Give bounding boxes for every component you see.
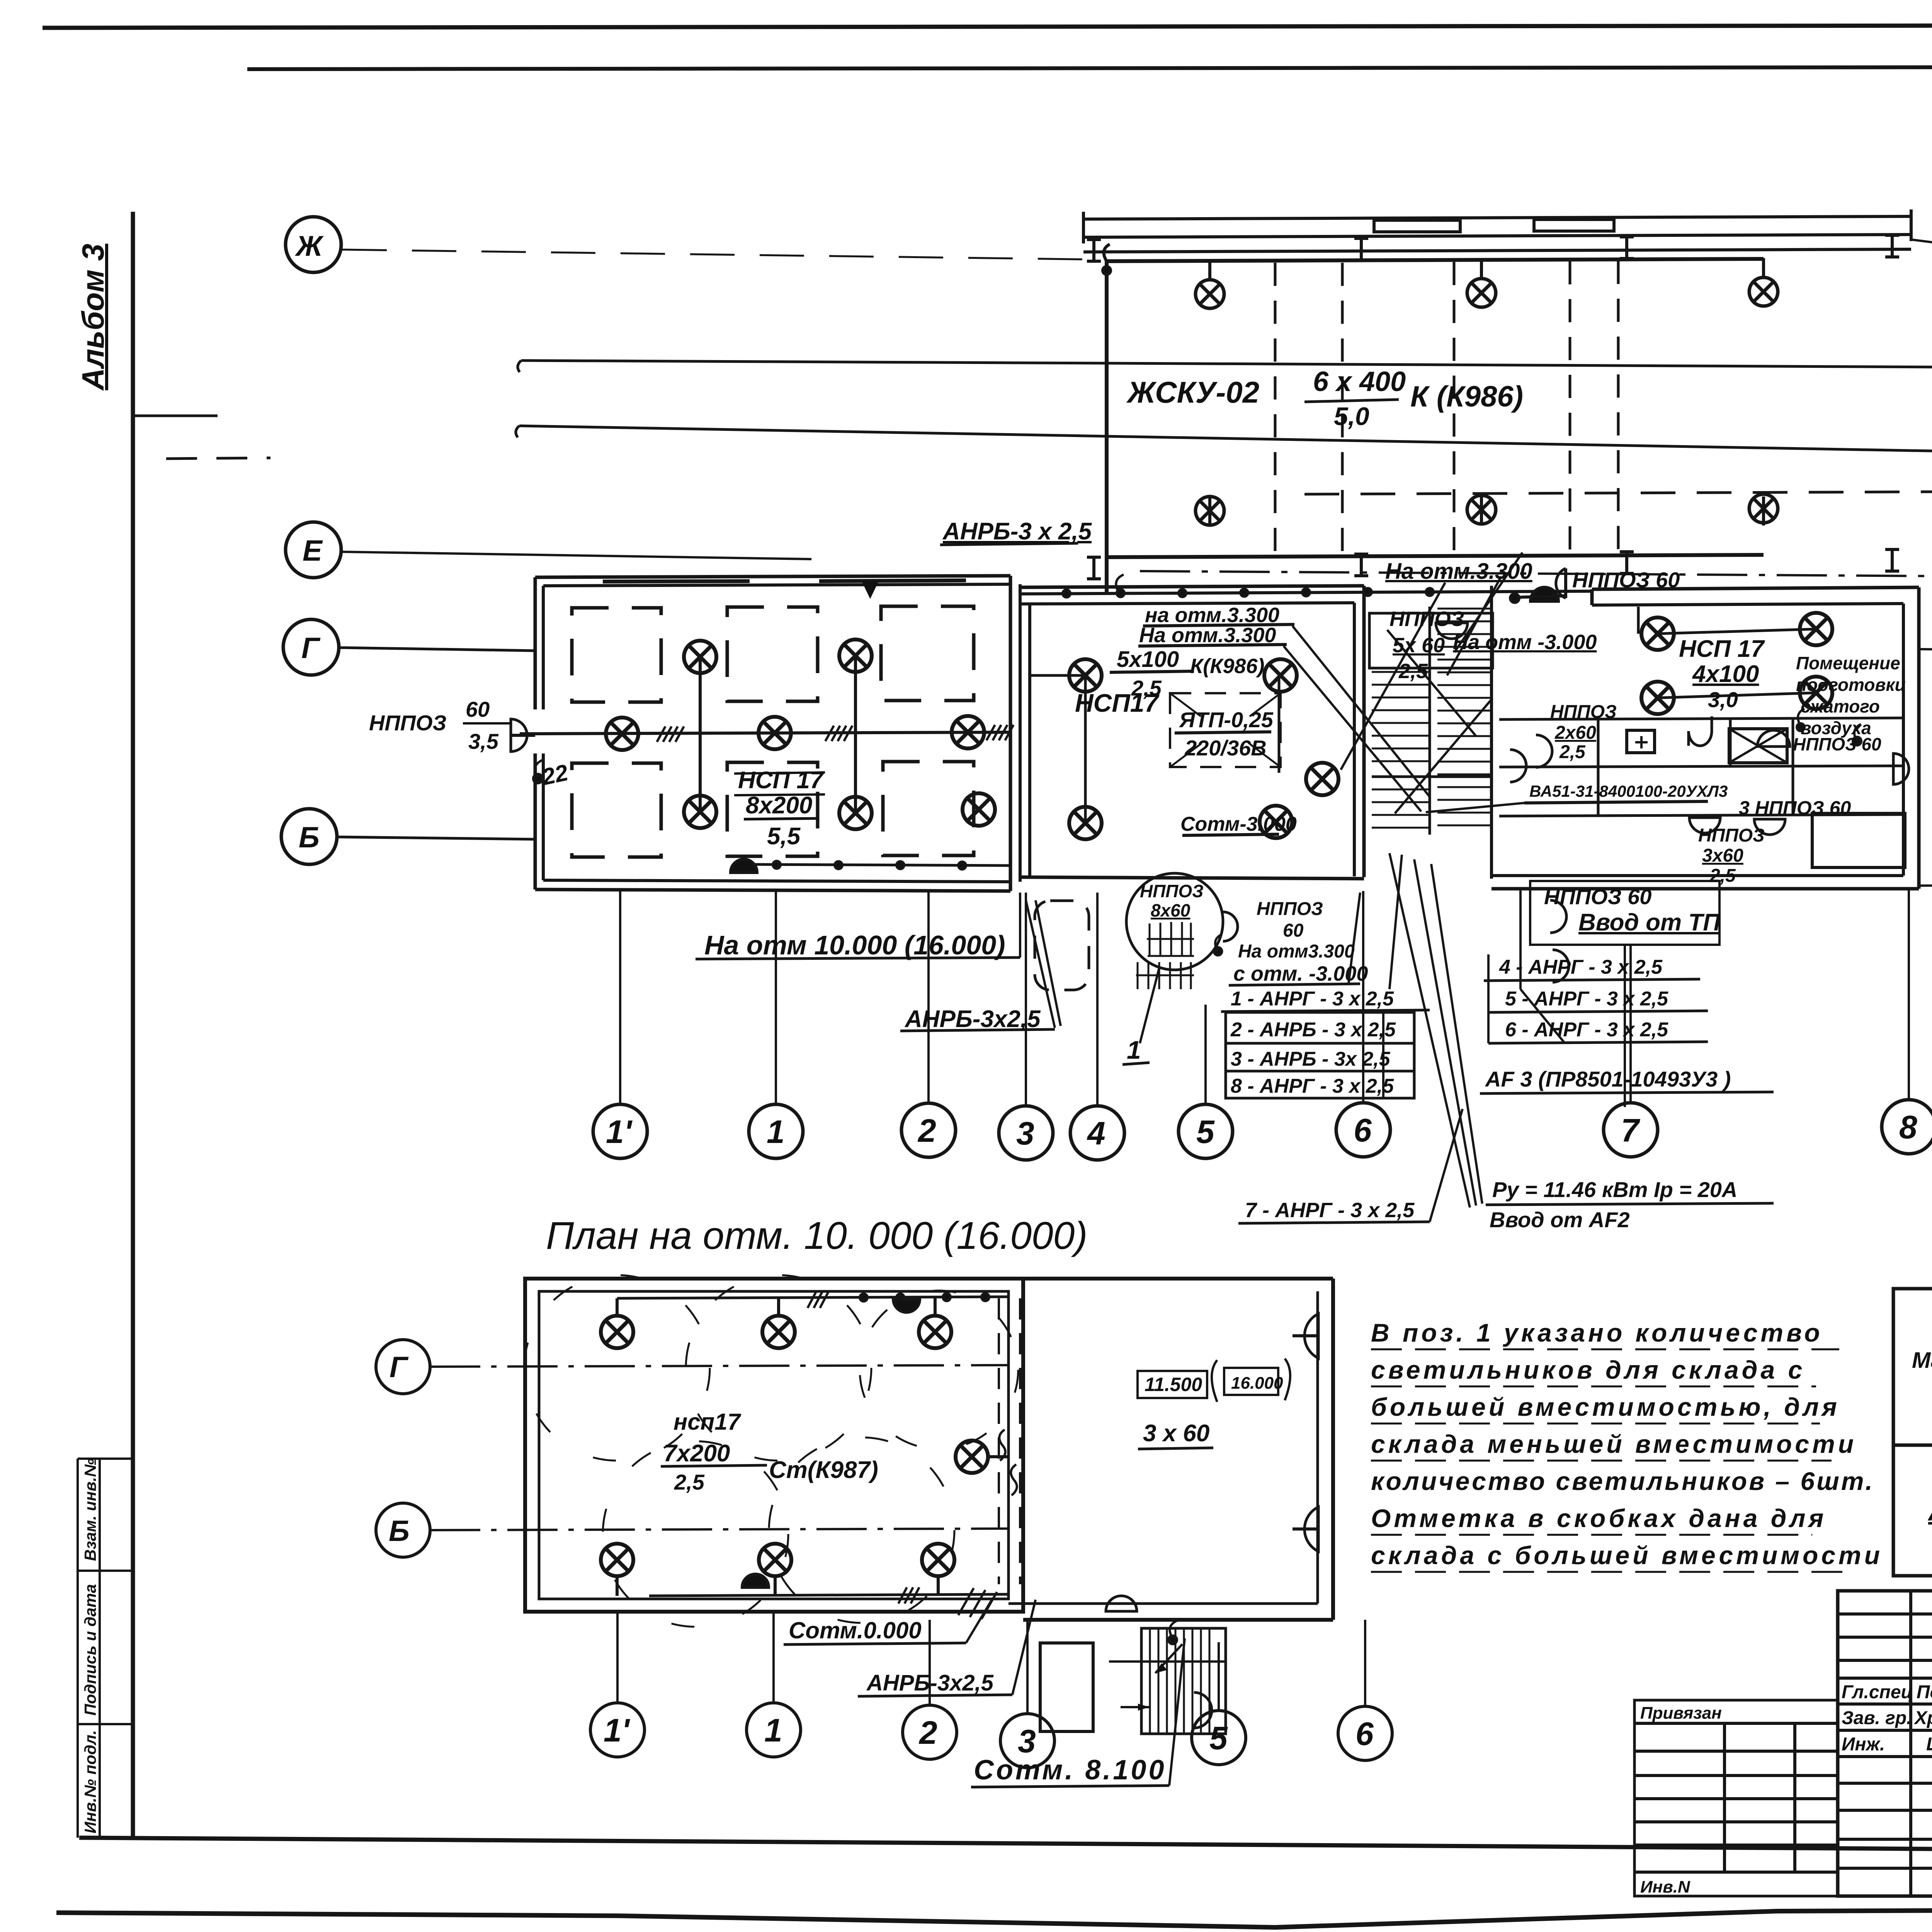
svg-text:1: 1 (764, 1712, 782, 1748)
svg-text:1: 1 (1127, 1036, 1141, 1064)
svg-text:НСП 17: НСП 17 (1679, 636, 1765, 662)
svg-text:Инж.: Инж. (1842, 1734, 1885, 1755)
svg-text:6: 6 (1355, 1716, 1374, 1752)
svg-text:4х100: 4х100 (1692, 661, 1759, 687)
svg-text:На отм3.300: На отм3.300 (1238, 941, 1355, 962)
svg-text:Сотм. 8.100: Сотм. 8.100 (974, 1755, 1167, 1786)
svg-text:НППОЗ 60: НППОЗ 60 (1793, 734, 1881, 754)
svg-text:60: 60 (1283, 920, 1304, 941)
svg-text:Хрипушкин: Хрипушкин (1913, 1708, 1932, 1728)
svg-text:большей вместимостью, для: большей вместимостью, для (1371, 1393, 1840, 1421)
svg-text:3,5: 3,5 (468, 729, 499, 753)
svg-text:Б: Б (299, 821, 320, 854)
svg-text:22: 22 (539, 759, 570, 790)
svg-text:4 - АНРГ - 3 х 2,5: 4 - АНРГ - 3 х 2,5 (1499, 956, 1663, 978)
svg-text:НППОЗ 60: НППОЗ 60 (1572, 568, 1680, 592)
svg-text:60: 60 (466, 697, 490, 721)
svg-text:Помещение: Помещение (1796, 653, 1900, 673)
svg-text:3 х 60: 3 х 60 (1143, 1420, 1209, 1447)
svg-text:сжатого: сжатого (1801, 696, 1880, 716)
svg-text:светильников для склада с: светильников для склада с (1371, 1355, 1805, 1384)
svg-text:3 - АНРБ - 3х 2,5: 3 - АНРБ - 3х 2,5 (1231, 1048, 1391, 1070)
svg-text:Е: Е (303, 534, 323, 567)
svg-text:Ж: Ж (294, 230, 324, 262)
svg-text:Сотм.0.000: Сотм.0.000 (789, 1617, 922, 1643)
svg-text:Ввод от ТП: Ввод от ТП (1578, 909, 1721, 936)
svg-text:ЖСКУ-02: ЖСКУ-02 (1126, 375, 1259, 409)
svg-text:Отметка в скобках дана для: Отметка в скобках дана для (1371, 1504, 1827, 1532)
svg-text:1': 1' (604, 1712, 631, 1748)
svg-text:5: 5 (1196, 1114, 1215, 1150)
svg-text:7х200: 7х200 (663, 1440, 730, 1467)
svg-text:Сотм-3.000: Сотм-3.000 (1180, 813, 1297, 835)
svg-text:2,5: 2,5 (1398, 660, 1428, 683)
svg-text:Ст(К987): Ст(К987) (769, 1457, 878, 1483)
svg-text:Альбом 3: Альбом 3 (76, 244, 110, 391)
svg-text:11.500: 11.500 (1145, 1374, 1202, 1395)
svg-text:2,5: 2,5 (674, 1470, 705, 1494)
svg-text:Г: Г (301, 632, 321, 665)
svg-text:Царева: Царева (1926, 1734, 1932, 1755)
svg-text:НППОЗ: НППОЗ (369, 711, 447, 735)
svg-text:с отм. -3.000: с отм. -3.000 (1233, 962, 1368, 985)
svg-text:Зав. гр.: Зав. гр. (1842, 1708, 1912, 1728)
svg-text:7 - АНРГ - 3 х 2,5: 7 - АНРГ - 3 х 2,5 (1245, 1199, 1415, 1222)
svg-text:5,0: 5,0 (1334, 402, 1369, 430)
svg-text:АF3: АF3 (1927, 1497, 1932, 1526)
svg-text:5х 60: 5х 60 (1393, 634, 1445, 657)
svg-text:НППОЗ 60: НППОЗ 60 (1544, 884, 1651, 909)
svg-text:Г: Г (389, 1351, 409, 1384)
svg-text:НППОЗ: НППОЗ (1140, 881, 1204, 901)
svg-text:ЯТП-0,25: ЯТП-0,25 (1179, 707, 1274, 732)
svg-text:На отм.3.300: На отм.3.300 (1139, 624, 1276, 647)
svg-text:5х100: 5х100 (1117, 647, 1179, 672)
svg-text:План на отм. 10. 000 (16.00: План на отм. 10. 000 (16.000) (546, 1214, 1088, 1257)
svg-text:АНРБ-3 х 2,5: АНРБ-3 х 2,5 (942, 518, 1092, 545)
svg-text:3 НППОЗ 60: 3 НППОЗ 60 (1739, 797, 1851, 819)
svg-text:В поз. 1 указано количество: В поз. 1 указано количество (1371, 1318, 1823, 1347)
svg-text:2: 2 (918, 1714, 937, 1751)
svg-text:НСП17: НСП17 (1075, 689, 1160, 717)
svg-text:Гл.спец: Гл.спец (1842, 1682, 1913, 1702)
svg-text:на отм.3.300: на отм.3.300 (1145, 604, 1279, 627)
svg-text:Б: Б (389, 1515, 410, 1548)
svg-text:На отм -3.000: На отм -3.000 (1453, 631, 1597, 654)
svg-text:2х60: 2х60 (1554, 723, 1596, 743)
svg-text:8: 8 (1899, 1109, 1917, 1145)
svg-text:Ру = 11.46 кВт Iр = 20А: Ру = 11.46 кВт Iр = 20А (1492, 1177, 1737, 1202)
svg-text:2,5: 2,5 (1559, 742, 1586, 762)
svg-text:5: 5 (1209, 1720, 1228, 1756)
svg-text:3х60: 3х60 (1702, 845, 1743, 866)
svg-text:НСП 17: НСП 17 (738, 767, 824, 794)
svg-text:К (К986): К (К986) (1410, 380, 1523, 413)
svg-text:1': 1' (606, 1114, 633, 1150)
svg-text:6 х 400: 6 х 400 (1313, 366, 1406, 397)
svg-text:2 - АНРБ - 3 х 2,5: 2 - АНРБ - 3 х 2,5 (1230, 1019, 1396, 1041)
svg-text:2: 2 (917, 1112, 936, 1149)
svg-text:5,5: 5,5 (767, 823, 801, 850)
svg-text:Привязан: Привязан (1640, 1704, 1722, 1723)
svg-text:5 - АНРГ - 3 х 2,5: 5 - АНРГ - 3 х 2,5 (1505, 988, 1668, 1010)
svg-text:Ввод от АF2: Ввод от АF2 (1490, 1207, 1630, 1232)
svg-text:склада меньшей вместимости: склада меньшей вместимости (1371, 1430, 1857, 1458)
svg-text:АНРБ-3х2,5: АНРБ-3х2,5 (904, 1006, 1041, 1032)
svg-text:16.000: 16.000 (1231, 1374, 1283, 1393)
svg-text:НППОЗ: НППОЗ (1550, 702, 1617, 722)
svg-text:1: 1 (767, 1114, 785, 1150)
svg-text:7: 7 (1621, 1112, 1640, 1148)
svg-text:6 - АНРГ - 3 х 2,5: 6 - АНРГ - 3 х 2,5 (1505, 1019, 1668, 1041)
svg-text:НППОЗ: НППОЗ (1698, 825, 1765, 846)
svg-text:8 - АНРГ - 3 х 2,5: 8 - АНРГ - 3 х 2,5 (1231, 1075, 1394, 1097)
svg-text:На отм 10.000 (16.000): На отм 10.000 (16.000) (704, 930, 1005, 960)
svg-text:НППОЗ: НППОЗ (1257, 899, 1323, 919)
svg-text:нсп17: нсп17 (673, 1409, 742, 1435)
svg-text:ВА51-31-8400100-20УХЛ3: ВА51-31-8400100-20УХЛ3 (1529, 782, 1728, 800)
svg-text:1 - АНРГ - 3 х 2,5: 1 - АНРГ - 3 х 2,5 (1231, 988, 1394, 1010)
svg-text:АНРБ-3х2,5: АНРБ-3х2,5 (866, 1670, 994, 1696)
svg-text:3: 3 (1018, 1723, 1036, 1759)
svg-text:количество светильников – 6шт: количество светильников – 6шт. (1371, 1467, 1874, 1495)
svg-text:склада с большей вместимости: склада с большей вместимости (1371, 1541, 1883, 1570)
svg-text:2,5: 2,5 (1709, 866, 1736, 886)
svg-text:К(К986): К(К986) (1190, 655, 1264, 678)
svg-text:6: 6 (1354, 1112, 1372, 1148)
svg-text:НППОЗ: НППОЗ (1389, 607, 1464, 631)
svg-text:АF 3 (ПР8501-10493У3 ): АF 3 (ПР8501-10493У3 ) (1485, 1067, 1731, 1091)
svg-text:Подпись и дата: Подпись и дата (81, 1584, 99, 1716)
svg-text:Инв.№ подл.: Инв.№ подл. (81, 1730, 99, 1833)
svg-text:3,0: 3,0 (1708, 687, 1738, 712)
svg-text:подготовки: подготовки (1796, 675, 1906, 695)
svg-text:Маркировка: Маркировка (1912, 1348, 1932, 1373)
svg-text:8х200: 8х200 (746, 792, 812, 819)
svg-text:4: 4 (1087, 1115, 1105, 1151)
svg-text:Потехин: Потехин (1917, 1682, 1932, 1702)
svg-text:Инв.N: Инв.N (1640, 1878, 1690, 1896)
svg-text:На отм.3.300: На отм.3.300 (1385, 559, 1532, 584)
svg-text:220/36В: 220/36В (1184, 736, 1267, 760)
svg-text:Взам. инв.№: Взам. инв.№ (81, 1458, 99, 1561)
svg-text:3: 3 (1016, 1115, 1034, 1151)
svg-text:8х60: 8х60 (1151, 900, 1190, 920)
